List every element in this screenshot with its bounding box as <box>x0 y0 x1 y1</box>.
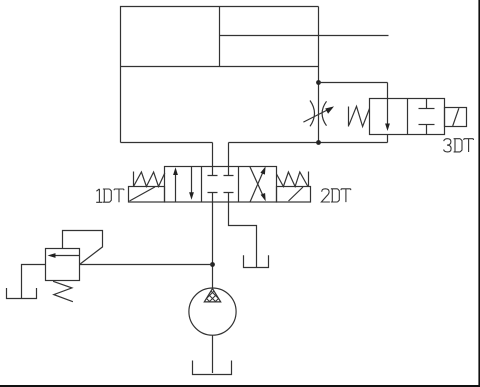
label 2DT <box>321 189 350 202</box>
directional valve main box <box>165 167 277 203</box>
image right border <box>478 0 480 387</box>
middle position blocked ports <box>208 167 234 203</box>
spring left (above 1DT solenoid) <box>134 172 165 187</box>
wire: pipe A cylinder to valve <box>212 143 214 167</box>
left position arrows (parallel flow) <box>173 167 194 203</box>
spring right (above 2DT solenoid) <box>277 172 309 187</box>
solenoid 1DT box <box>129 187 165 203</box>
label 1DT <box>96 189 124 202</box>
wire: T pipe to tank <box>229 202 257 268</box>
wire: pump suction to tank <box>212 335 214 373</box>
valve 3DT flow arrow (left position) <box>385 83 390 132</box>
tank at pump <box>193 361 232 375</box>
relief valve pilot line loop <box>63 231 103 265</box>
relief valve body <box>46 249 80 281</box>
solenoid 2DT box <box>277 187 311 203</box>
tank at valve return <box>244 255 269 267</box>
image bottom border <box>0 385 480 387</box>
spring of relief valve <box>53 281 73 301</box>
wire: relief inlet pipe <box>80 264 213 266</box>
wire: P pipe valve to pump <box>212 202 214 288</box>
right position crossed arrows <box>250 166 266 202</box>
wire: cylinder right wall / pipe through throttle <box>318 7 320 143</box>
node: junction at throttle bottom (318.5,142.5) <box>316 140 321 145</box>
wire: pipe B cylinder to valve <box>228 143 230 167</box>
pump circle <box>189 288 236 335</box>
piston <box>219 7 221 67</box>
wire: cylinder bottom continuing to 3DT return leg <box>229 142 388 144</box>
pump triangle (hatched) <box>197 280 228 311</box>
valve 3DT blocked ports (right position) <box>419 99 435 135</box>
node: junction at throttle top (318.5,82.5) <box>316 80 321 85</box>
label 3DT <box>444 139 474 152</box>
node: junction P pipe / relief inlet (212.5,264.5) <box>210 262 215 267</box>
tank at relief drain <box>7 288 37 299</box>
solenoid 3DT <box>445 108 467 127</box>
throttle valve (adjustable restrictor) <box>303 101 334 127</box>
relief valve internal arrow <box>48 253 80 258</box>
wire: relief drain to tank <box>22 265 46 299</box>
wire: bypass top run to 3DT valve <box>319 82 388 84</box>
piston rod <box>220 35 389 37</box>
wire: 3DT bottom return leg <box>387 135 389 143</box>
cylinder body <box>121 7 319 143</box>
valve 3DT body <box>370 99 445 135</box>
spring of 3DT valve <box>349 106 370 126</box>
